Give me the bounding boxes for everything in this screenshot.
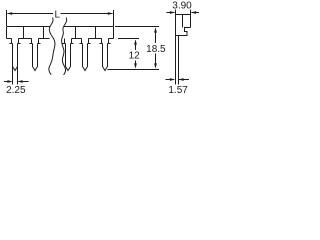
dim 1.57 bbox=[166, 79, 175, 81]
1.57 right (points left) bbox=[179, 78, 184, 81]
svg-text:18.5: 18.5 bbox=[146, 44, 166, 55]
pin 3 (c=68) bbox=[63, 39, 74, 71]
labels bbox=[6, 1, 192, 96]
dim 18.5 extension line (body top) bbox=[115, 26, 159, 28]
pin 4 (c=85) bbox=[80, 39, 91, 71]
left edge bbox=[6, 27, 8, 39]
svg-text:12: 12 bbox=[129, 51, 141, 62]
pin tip ext bbox=[108, 69, 160, 71]
body outline (front view) bbox=[7, 27, 114, 39]
pin 2 (c=35) bbox=[30, 39, 41, 71]
1.57 left (points right) bbox=[170, 78, 175, 81]
3.90 right (points left) bbox=[191, 11, 196, 14]
dim 18.5 line bbox=[155, 29, 157, 44]
top edge right of break bbox=[64, 26, 114, 28]
2.25 right (points left) bbox=[18, 80, 23, 83]
dim 2.25 arrow shafts bbox=[4, 81, 12, 83]
pin 1 (c=15) bbox=[10, 39, 21, 85]
bottom edge segments between pedestals bbox=[7, 38, 12, 40]
svg-text:3.90: 3.90 bbox=[172, 1, 192, 12]
divisions bbox=[23, 27, 25, 39]
18.5 up bbox=[154, 28, 157, 33]
dimension L extension lines bbox=[7, 10, 114, 26]
side view bbox=[176, 15, 191, 85]
svg-text:L: L bbox=[55, 9, 61, 20]
18.5 down bbox=[154, 63, 157, 68]
svg-text:1.57: 1.57 bbox=[168, 85, 188, 96]
top edge left of break bbox=[7, 26, 51, 28]
L right bbox=[108, 12, 113, 15]
dim 12 line bbox=[135, 41, 137, 51]
12 down bbox=[134, 63, 137, 68]
break line left bbox=[49, 18, 55, 75]
12 up bbox=[134, 40, 137, 45]
3.90 left (points right) bbox=[170, 11, 175, 14]
body bottom ext for dim 12 bbox=[118, 38, 139, 40]
dim 3.90 bbox=[175, 10, 177, 15]
pin 5 (c=105) bbox=[100, 39, 111, 71]
break line right bbox=[62, 18, 67, 76]
svg-text:2.25: 2.25 bbox=[6, 85, 26, 96]
right edge bbox=[113, 27, 115, 39]
2.25 left (points right) bbox=[7, 80, 12, 83]
L left bbox=[7, 12, 12, 15]
arrowheads bbox=[7, 11, 196, 83]
